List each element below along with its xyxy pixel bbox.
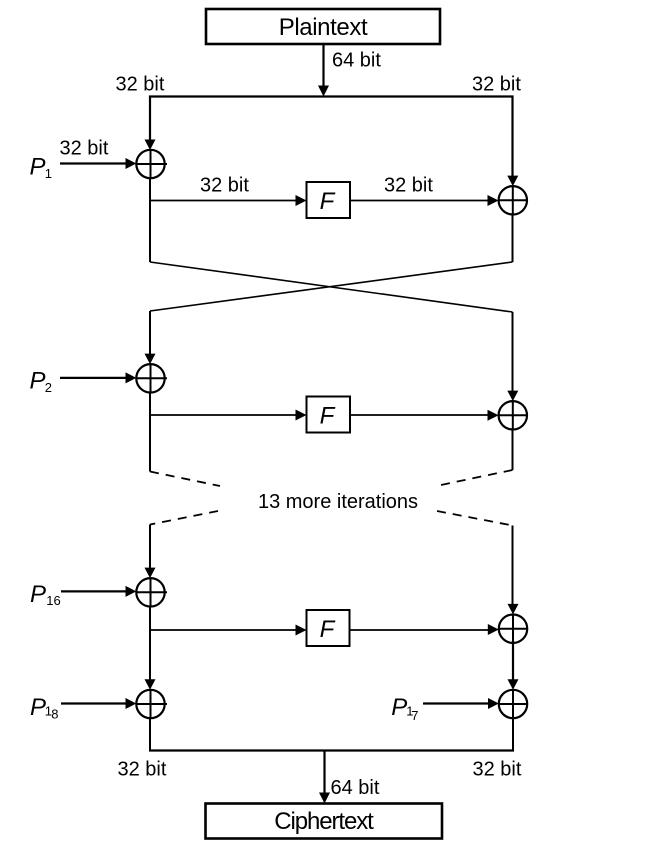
wire right rail into X2R xyxy=(507,312,518,401)
wire F3 to X3R xyxy=(350,624,499,635)
box Plaintext xyxy=(206,9,440,44)
svg-text:64 bit: 64 bit xyxy=(332,50,381,72)
wire left rail into X2L xyxy=(145,311,156,364)
wire cross left-to-right xyxy=(150,262,513,312)
xor X2R xyxy=(499,401,527,429)
wire bottom horizontal join xyxy=(149,749,514,751)
wire dashed lower-right xyxy=(437,511,513,526)
svg-text:F: F xyxy=(320,616,336,643)
xor X2L xyxy=(136,364,167,392)
wire P2 arrow xyxy=(60,372,136,383)
svg-text:Plaintext: Plaintext xyxy=(279,14,368,41)
wire left rail X1L to cross corner xyxy=(149,178,151,262)
wire F2 to X2R xyxy=(350,410,499,421)
xor X3L xyxy=(136,578,167,606)
wire left rail into X3L xyxy=(145,525,156,579)
wire right rail X1R to cross corner xyxy=(512,215,514,263)
wire P17 arrow xyxy=(423,698,499,709)
svg-text:P: P xyxy=(30,368,46,395)
svg-text:13 more iterations: 13 more iterations xyxy=(258,491,418,513)
label P1 xyxy=(30,153,53,181)
wire right rail X4R to bottom xyxy=(512,718,514,751)
wire P18 arrow xyxy=(61,698,136,709)
wire 64-bit down to Ciphertext xyxy=(319,751,330,804)
svg-text:P: P xyxy=(30,153,46,180)
wire top horizontal split xyxy=(149,95,514,97)
wire dashed upper-left xyxy=(150,472,220,487)
wire F1 to X1R xyxy=(350,195,499,206)
svg-text:P: P xyxy=(391,694,407,721)
wire cross right-to-left xyxy=(150,262,513,311)
svg-text:F: F xyxy=(320,188,336,215)
wire right rail into X3R xyxy=(508,526,519,615)
svg-text:32 bit: 32 bit xyxy=(200,175,249,197)
wire branch to F1 xyxy=(149,195,307,206)
box F1 xyxy=(307,182,351,218)
svg-text:32 bit: 32 bit xyxy=(118,759,167,781)
svg-text:Ciphertext: Ciphertext xyxy=(274,808,374,835)
xor X4L xyxy=(136,690,167,718)
box F3 xyxy=(307,610,350,646)
svg-text:16: 16 xyxy=(46,593,60,608)
wire dashed lower-left xyxy=(150,511,218,525)
label P17 xyxy=(391,694,418,723)
xor X1R xyxy=(499,186,527,214)
wire P16 arrow xyxy=(61,586,136,597)
svg-text:32 bit: 32 bit xyxy=(60,138,109,160)
wire P1 arrow xyxy=(60,158,136,169)
wire left rail X2L down xyxy=(149,393,151,472)
box F2 xyxy=(307,397,351,433)
wire 64-bit down from Plaintext xyxy=(318,44,329,97)
xor X4R xyxy=(499,690,527,718)
svg-text:1: 1 xyxy=(45,166,52,181)
wire branch to F3 xyxy=(149,625,307,636)
xor X3R xyxy=(499,614,527,643)
svg-text:F: F xyxy=(320,403,336,430)
svg-text:P: P xyxy=(30,694,46,721)
svg-text:P: P xyxy=(30,581,46,608)
wire branch to F2 xyxy=(149,410,307,421)
xor X1L xyxy=(136,150,167,178)
wire left rail into X1L xyxy=(145,96,156,151)
wire dashed upper-right xyxy=(436,470,513,486)
svg-text:64 bit: 64 bit xyxy=(331,777,380,799)
box Ciphertext xyxy=(206,804,443,839)
svg-text:7: 7 xyxy=(411,708,418,723)
svg-text:32 bit: 32 bit xyxy=(384,175,433,197)
wire right rail X3R into X4R xyxy=(508,643,519,690)
svg-text:32 bit: 32 bit xyxy=(472,74,521,96)
svg-text:32 bit: 32 bit xyxy=(473,759,522,781)
svg-text:8: 8 xyxy=(51,706,58,721)
label P2 xyxy=(30,368,53,396)
wire left rail X3L into X4L xyxy=(145,607,156,690)
wire right rail into X1R xyxy=(507,96,518,187)
svg-text:2: 2 xyxy=(45,380,52,395)
wire left rail X4L to bottom xyxy=(149,718,151,751)
svg-text:32 bit: 32 bit xyxy=(116,74,165,96)
wire right rail X2R down xyxy=(512,430,514,471)
label P18 xyxy=(30,694,59,722)
label P16 xyxy=(30,581,61,608)
